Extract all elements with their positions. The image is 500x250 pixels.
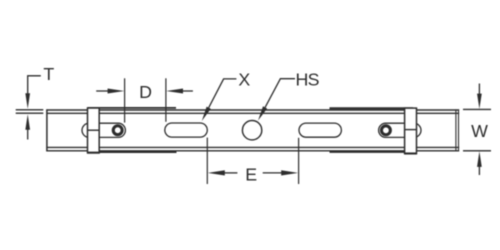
slot S1 (165, 123, 208, 137)
bolt ring left (113, 126, 122, 135)
overlap edge bottom right (330, 151, 405, 153)
bar top outer edge (46, 109, 459, 111)
svg-text:HS: HS (295, 70, 319, 90)
dimension D right arrow (166, 88, 193, 93)
overlap edge bottom left (99, 151, 177, 153)
dimension T up arrow (25, 114, 30, 139)
bar bottom outer edge (46, 150, 459, 152)
hole HS (242, 121, 261, 140)
slot S2 (299, 123, 341, 137)
dimension W top arrow (477, 84, 482, 109)
svg-text:W: W (471, 121, 488, 141)
bolt ring right (381, 126, 390, 135)
svg-text:E: E (245, 165, 257, 185)
svg-text:X: X (238, 70, 250, 90)
left bracket (87, 108, 100, 153)
dimension T reference lines (16, 110, 44, 113)
dimension E extension lines (207, 138, 298, 184)
svg-text:T: T (43, 64, 54, 84)
bar bottom inner fold (46, 146, 459, 148)
bar right end edge (456, 109, 459, 151)
dimension T down arrow (25, 93, 30, 109)
dimension W bottom arrow (477, 151, 482, 175)
dimension E left arrow (208, 170, 238, 175)
leader HS (258, 79, 295, 121)
dimension W extension lines (463, 109, 491, 150)
dimension T leader (28, 76, 41, 94)
right bracket (404, 108, 417, 153)
overlap edge top left (88, 107, 177, 109)
dimension D extension lines (125, 78, 166, 122)
overlap edge top right (330, 107, 414, 109)
slot left end (82, 123, 125, 137)
dimension E right arrow (263, 170, 298, 175)
bar left end edge (46, 109, 48, 151)
dimension D left arrow (96, 88, 124, 93)
bar top inner fold (46, 112, 459, 114)
slot right end (379, 123, 421, 137)
leader X (202, 79, 237, 121)
svg-text:D: D (139, 82, 152, 102)
